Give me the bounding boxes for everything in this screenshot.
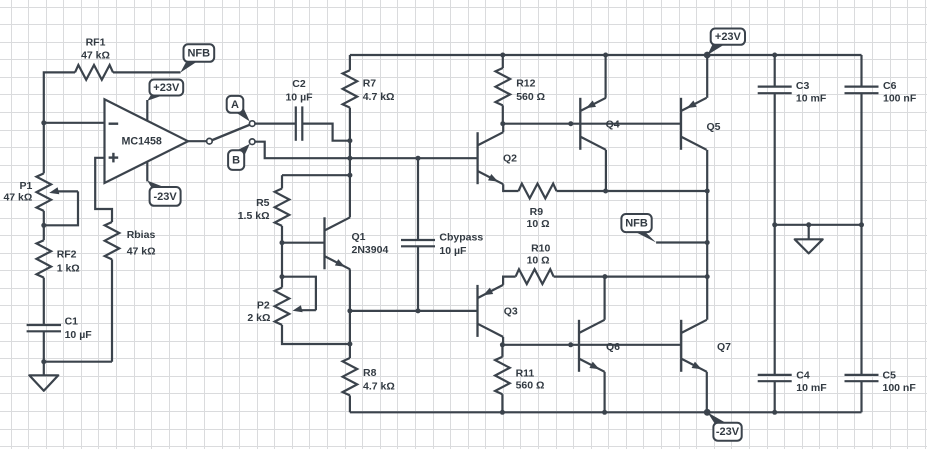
svg-text:MC1458: MC1458: [121, 135, 161, 147]
svg-text:2N3904: 2N3904: [352, 244, 389, 256]
wire C5 bottom lead: [860, 381, 862, 412]
wire C1 to ground node: [43, 331, 45, 375]
svg-text:R8: R8: [363, 367, 377, 379]
wire Q2 emitter lead: [503, 184, 518, 191]
ground (left): [29, 375, 58, 391]
label R12 value: [516, 78, 545, 104]
wire P1 to RF2: [43, 211, 45, 240]
junction Q6 collector node: [602, 274, 607, 279]
svg-text:560 Ω: 560 Ω: [516, 91, 545, 103]
wire RF1 right lead to NFB flag: [113, 71, 181, 73]
svg-text:47 kΩ: 47 kΩ: [127, 246, 156, 258]
svg-text:R5: R5: [256, 197, 270, 209]
junction -23V rail node: [704, 409, 711, 416]
svg-text:10 mF: 10 mF: [796, 92, 827, 104]
wire +23V top rail: [350, 54, 862, 56]
wire C6 top lead: [860, 55, 862, 87]
svg-text:100 nF: 100 nF: [883, 382, 917, 394]
junction base line crossing: [347, 156, 352, 161]
wire A to C2: [255, 122, 296, 124]
wire emitter node to R8: [349, 311, 351, 358]
op-amp V+ pin: [146, 100, 148, 121]
label C3 value: [796, 80, 827, 104]
svg-text:R11: R11: [516, 367, 535, 379]
svg-text:47 kΩ: 47 kΩ: [81, 50, 110, 62]
label Q2: [503, 152, 517, 164]
junction NFB node: [705, 240, 710, 245]
wire C2 to input node: [302, 124, 350, 141]
wire Q3 collector lead: [502, 337, 504, 345]
label RF2 value: [57, 249, 80, 275]
svg-text:P1: P1: [19, 180, 32, 192]
svg-text:Q1: Q1: [352, 231, 366, 243]
switch throw B terminal: [249, 139, 255, 145]
svg-text:-23V: -23V: [153, 191, 177, 203]
junction Q4 collector node: [603, 189, 608, 194]
wire P2 bottom to R8 column: [282, 325, 350, 344]
svg-text:2 kΩ: 2 kΩ: [247, 312, 270, 324]
junction Q6 base tap: [568, 342, 573, 347]
wire R9 row to output column: [606, 190, 708, 192]
wire C3 top lead: [774, 55, 776, 87]
wire Q1 emitter to emitter node: [349, 269, 351, 311]
svg-text:Q6: Q6: [606, 341, 620, 353]
svg-text:C2: C2: [292, 78, 306, 90]
svg-text:NFB: NFB: [187, 48, 210, 60]
transistor Q6: [579, 320, 605, 372]
capacitor C4: [758, 375, 792, 381]
svg-text:560 Ω: 560 Ω: [516, 380, 545, 392]
transistor Q2: [478, 132, 504, 184]
junction P2 bottom node: [347, 342, 352, 347]
wire C6 to C5 column: [860, 93, 862, 375]
svg-text:-23V: -23V: [716, 426, 740, 438]
junction inverting-input node: [41, 120, 46, 125]
svg-text:RF2: RF2: [57, 249, 77, 261]
junction R11 rail node: [500, 410, 505, 415]
svg-text:10 mF: 10 mF: [796, 382, 827, 394]
svg-text:Q4: Q4: [606, 118, 620, 130]
switch pole terminal: [207, 138, 213, 144]
junction mid node C3/C4: [772, 222, 777, 227]
label Cbypass value: [439, 231, 483, 257]
junction R11/Q3 collector node: [500, 342, 505, 347]
potentiometer P2: [275, 288, 290, 325]
wire upper base line to Q5: [503, 123, 681, 125]
svg-text:C1: C1: [65, 316, 79, 328]
label R7 value: [363, 78, 395, 103]
junction Cbypass bottom node: [416, 308, 421, 313]
svg-text:Rbias: Rbias: [127, 229, 156, 241]
wire -23V bottom rail: [350, 411, 862, 413]
net flag NFB (output): [621, 214, 656, 243]
wire R5 to Q1 base: [282, 226, 325, 243]
wire Q7 emitter lead: [706, 372, 708, 413]
resistor R9: [519, 184, 557, 199]
svg-text:10 µF: 10 µF: [285, 91, 313, 103]
svg-text:1 kΩ: 1 kΩ: [57, 262, 80, 274]
label R8 value: [363, 367, 395, 392]
svg-text:10 µF: 10 µF: [65, 329, 93, 341]
wire C3 to C4 column: [774, 93, 776, 375]
label Q5: [707, 121, 721, 133]
wire Rbias to ground node: [111, 259, 113, 361]
label Q6: [606, 341, 620, 353]
junction input node (C2/R7): [347, 138, 352, 143]
wire R7 to Q1 collector column: [349, 108, 351, 218]
junction output node (R10 row): [705, 274, 710, 279]
net flag NFB (top left): [180, 44, 214, 72]
junction Q4 base tap: [568, 121, 573, 126]
wire R11 top lead: [501, 345, 503, 357]
ground (right): [795, 239, 823, 253]
svg-text:10 Ω: 10 Ω: [527, 255, 550, 267]
resistor R11: [495, 357, 510, 394]
capacitor C1: [27, 325, 61, 331]
transistor Q5 (PNP): [681, 98, 707, 150]
label R11 value: [516, 367, 545, 391]
svg-text:R12: R12: [516, 78, 535, 90]
wire Q5 emitter lead: [706, 55, 708, 98]
svg-text:C4: C4: [796, 370, 810, 382]
wire op-amp output: [188, 140, 206, 142]
svg-text:+23V: +23V: [153, 82, 180, 94]
net flag +23V (op-amp supply): [147, 80, 183, 101]
junction C3 rail node: [772, 53, 777, 58]
junction R12 rail node: [500, 53, 505, 58]
wire NFB to output column: [656, 241, 707, 243]
wire R8 bottom lead: [349, 395, 351, 412]
resistor R5: [275, 175, 290, 226]
wire R10 to Q6 collector: [554, 276, 605, 278]
svg-text:A: A: [231, 99, 239, 111]
junction Q4 rail node: [603, 53, 608, 58]
potentiometer P1: [37, 173, 52, 210]
resistor R8: [343, 358, 358, 395]
svg-text:C3: C3: [796, 80, 810, 92]
wire emitter row to Q3 base: [350, 310, 478, 312]
svg-text:R9: R9: [530, 206, 544, 218]
junction emitter node: [347, 308, 352, 313]
wire output column: [706, 150, 708, 320]
svg-text:NFB: NFB: [625, 218, 648, 230]
label C5 value: [883, 370, 917, 395]
label Q7: [717, 341, 731, 353]
wire R7 top lead: [349, 55, 351, 70]
wire Q4 emitter lead: [604, 55, 606, 98]
junction Q6 rail node: [602, 410, 607, 415]
wire Q3 emitter lead: [503, 277, 515, 285]
wire R12 bottom lead: [502, 105, 504, 123]
wire mid ground link: [775, 224, 862, 226]
label C6 value: [883, 80, 917, 104]
junction mid node C6/C5: [859, 222, 864, 227]
label Q4: [606, 118, 620, 130]
svg-text:RF1: RF1: [86, 37, 106, 49]
wire C4 bottom lead: [774, 381, 776, 412]
label C4 value: [796, 370, 827, 395]
wire RF1 left lead and inverting-input column: [44, 72, 75, 173]
wire inverting input: [44, 122, 105, 124]
wire P2 wiper loop: [282, 277, 316, 311]
capacitor C6: [845, 87, 879, 94]
transistor Q1 2N3904: [325, 217, 351, 269]
op-amp V- pin: [146, 162, 148, 182]
label Rbias value: [127, 229, 156, 258]
svg-text:4.7 kΩ: 4.7 kΩ: [363, 91, 395, 103]
svg-text:C6: C6: [883, 80, 897, 92]
svg-text:+23V: +23V: [715, 31, 742, 43]
junction R5/P2/base node: [280, 240, 285, 245]
wire P1 wiper loop: [44, 191, 78, 225]
net flag -23V (rail): [708, 412, 742, 440]
transistor Q3 (PNP): [478, 285, 504, 337]
resistor R10: [516, 269, 554, 284]
svg-text:Q3: Q3: [504, 306, 518, 318]
label Q3: [504, 306, 518, 318]
wire ground stem: [806, 222, 811, 239]
label R5 value: [238, 197, 270, 222]
resistor R12: [496, 68, 511, 105]
transistor Q4 (PNP): [580, 98, 606, 150]
P1 wiper arrow: [49, 187, 78, 194]
svg-text:B: B: [232, 155, 240, 167]
wire R9 to Q4 collector: [557, 190, 606, 192]
capacitor C2: [296, 106, 303, 140]
svg-text:10 Ω: 10 Ω: [526, 218, 549, 230]
label RF1 value: [81, 37, 110, 62]
resistor R7: [343, 70, 358, 107]
svg-text:Q2: Q2: [503, 152, 517, 164]
label P1 value: [3, 180, 32, 204]
junction output node (R9 row): [705, 189, 710, 194]
capacitor C3: [758, 87, 792, 94]
switch blade to A: [212, 125, 249, 140]
svg-text:47 kΩ: 47 kΩ: [3, 192, 32, 204]
junction C4 rail node: [772, 410, 777, 415]
wire non-inverting input to Rbias: [95, 158, 112, 222]
wire R5 top: [282, 174, 350, 176]
wire Rbias bottom to ground node: [44, 361, 112, 363]
wire Q2 collector lead: [502, 124, 504, 133]
svg-text:4.7 kΩ: 4.7 kΩ: [363, 380, 395, 392]
wire RF2 to C1: [43, 278, 45, 325]
wire R10 row to output column: [605, 276, 707, 278]
net flag B: [228, 144, 250, 170]
wire Cbypass bottom: [417, 246, 419, 311]
svg-text:1.5 kΩ: 1.5 kΩ: [238, 210, 270, 222]
junction P1/RF2 node: [41, 223, 46, 228]
wire Q6 emitter lead: [603, 372, 605, 413]
capacitor Cbypass: [401, 240, 435, 246]
wire Q6 collector lead: [603, 277, 605, 320]
svg-text:R10: R10: [531, 243, 550, 255]
label C1 value: [65, 316, 93, 342]
net flag A: [227, 96, 250, 122]
junction ground node: [41, 359, 46, 364]
switch throw A terminal: [249, 121, 255, 127]
label R9 value: [526, 206, 549, 230]
resistor RF1: [75, 65, 113, 80]
P2 wiper arrow: [293, 305, 316, 312]
svg-text:Cbypass: Cbypass: [439, 231, 483, 243]
label P2 value: [247, 299, 270, 323]
wire lower base line to Q7: [502, 344, 681, 346]
wire B to Q2 base: [255, 142, 477, 159]
wire P2 top column: [281, 243, 283, 288]
resistor RF2: [37, 240, 52, 277]
capacitor C5: [845, 375, 879, 381]
wire R11 bottom lead: [501, 394, 503, 412]
junction P2 wiper node: [280, 274, 285, 279]
wire Cbypass top: [417, 158, 419, 240]
junction R5 top node: [347, 173, 352, 178]
net flag +23V (rail): [707, 29, 745, 56]
svg-text:Q5: Q5: [707, 121, 721, 133]
junction +23V rail node: [704, 52, 711, 59]
transistor Q7: [681, 320, 707, 372]
junction R12/Q2 collector node: [500, 121, 505, 126]
label R10 value: [527, 243, 551, 267]
svg-text:R7: R7: [363, 78, 377, 90]
label C2 value: [285, 78, 313, 103]
svg-text:Q7: Q7: [717, 341, 731, 353]
op-amp U1 MC1458: [105, 99, 189, 183]
svg-text:10 µF: 10 µF: [439, 245, 467, 257]
junction Cbypass top node: [416, 156, 421, 161]
wire R12 top lead: [502, 55, 504, 68]
net flag -23V (op-amp supply): [147, 181, 180, 206]
svg-text:100 nF: 100 nF: [883, 92, 917, 104]
svg-text:C5: C5: [883, 370, 897, 382]
label Q1: [352, 231, 389, 256]
wire Q4 collector lead: [605, 150, 607, 191]
svg-text:P2: P2: [257, 299, 270, 311]
resistor Rbias: [105, 222, 120, 259]
